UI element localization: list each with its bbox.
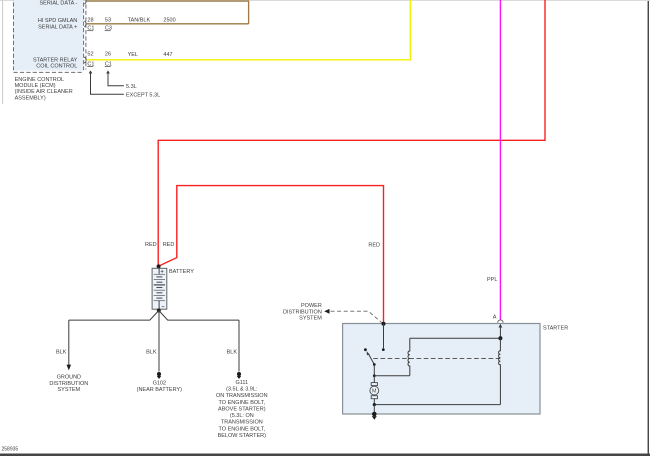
svg-text:SYSTEM: SYSTEM [57, 387, 80, 393]
svg-text:SYSTEM: SYSTEM [299, 316, 322, 322]
svg-text:TO ENGINE BOLT,: TO ENGINE BOLT, [219, 426, 266, 432]
svg-text:2500: 2500 [163, 17, 175, 23]
svg-text:A: A [493, 315, 497, 321]
svg-text:TRANSMISSION: TRANSMISSION [221, 420, 263, 426]
svg-text:BLK: BLK [56, 349, 67, 355]
svg-text:COIL CONTROL: COIL CONTROL [36, 64, 77, 70]
ECM connector face dashed line [85, 0, 87, 70]
page top faint edge [0, 0, 650, 1]
ground bus wire [69, 311, 239, 321]
wire PPL [499, 0, 501, 320]
node motor return [373, 403, 376, 406]
svg-text:RED: RED [145, 242, 157, 248]
solenoid linkage (dashed) [373, 358, 500, 360]
svg-text:MODULE (ECM): MODULE (ECM) [15, 83, 56, 89]
motor M [370, 376, 379, 405]
solenoid switch [364, 348, 376, 366]
connector C1 (row1) [87, 26, 94, 32]
wire coil top bus [410, 337, 501, 339]
svg-text:26: 26 [105, 51, 111, 57]
svg-text:M: M [372, 389, 377, 395]
connector C3 [105, 26, 112, 32]
starter case ground [372, 412, 377, 420]
svg-text:TO ENGINE BOLT,: TO ENGINE BOLT, [219, 400, 266, 406]
svg-text:(3.5L & 3.9L:: (3.5L & 3.9L: [226, 387, 258, 393]
frame bottom border [0, 454, 650, 456]
svg-text:BATTERY: BATTERY [169, 269, 194, 275]
svg-text:53: 53 [105, 17, 111, 23]
svg-text:DISTRIBUTION: DISTRIBUTION [49, 381, 88, 387]
svg-text:BELOW STARTER): BELOW STARTER) [218, 433, 267, 439]
battery negative junction [157, 309, 161, 313]
svg-text:(INSIDE AIR CLEANER: (INSIDE AIR CLEANER [15, 89, 73, 95]
G111 caption [216, 380, 268, 439]
svg-text:GROUND: GROUND [57, 375, 81, 381]
pull-in coil [408, 338, 410, 376]
svg-text:ON TRANSMISSION: ON TRANSMISSION [216, 393, 268, 399]
wire TAN/BLK 2500 [84, 21, 248, 27]
svg-text:G111: G111 [235, 380, 248, 386]
ground G111 [237, 372, 241, 379]
variant arrow EXCEPT 5.3L [89, 70, 160, 98]
wire BLK to G102 [158, 311, 160, 372]
svg-text:(NEAR BATTERY): (NEAR BATTERY) [137, 387, 182, 393]
svg-text:BLK: BLK [227, 349, 238, 355]
svg-text:ENGINE CONTROL: ENGINE CONTROL [15, 77, 65, 83]
svg-text:STARTER RELAY: STARTER RELAY [33, 57, 78, 63]
svg-text:TAN/BLK: TAN/BLK [128, 17, 151, 23]
svg-text:28: 28 [87, 17, 93, 23]
svg-text:(5.3L: ON: (5.3L: ON [230, 413, 254, 419]
ground distribution caption [49, 375, 88, 394]
page left faint edge [2, 0, 4, 104]
ECM module box (dashed, light blue) [14, 0, 84, 72]
svg-text:YEL: YEL [128, 52, 138, 58]
svg-text:PPL: PPL [487, 277, 497, 283]
wire switch to motor node [373, 365, 376, 378]
svg-text:5.3L: 5.3L [126, 84, 137, 90]
wire SERIAL DATA - (tan, top) [84, 0, 248, 24]
variant arrow 5.3L [106, 70, 137, 90]
svg-text:258935: 258935 [2, 447, 19, 453]
battery B+ [152, 268, 167, 309]
svg-text:SERIAL DATA +: SERIAL DATA + [38, 24, 77, 30]
connector C1 (row2 right) [105, 61, 112, 67]
svg-text:DISTRIBUTION: DISTRIBUTION [283, 309, 322, 315]
svg-text:STARTER: STARTER [543, 325, 568, 331]
node: red feed entering starter [382, 322, 386, 326]
svg-text:POWER: POWER [301, 303, 322, 309]
hold-in coil [499, 338, 501, 404]
svg-text:ABOVE STARTER): ABOVE STARTER) [218, 406, 266, 412]
starter box [343, 324, 540, 415]
svg-text:52: 52 [87, 51, 93, 57]
wire to case ground [373, 405, 375, 414]
frame right border [648, 1, 649, 456]
svg-text:BLK: BLK [146, 349, 157, 355]
svg-text:ASSEMBLY): ASSEMBLY) [15, 95, 46, 101]
svg-text:RED: RED [163, 242, 175, 248]
wire RED (battery feed 2) [159, 186, 384, 323]
svg-text:SERIAL DATA -: SERIAL DATA - [40, 0, 78, 6]
connector C1 (row2 left) [87, 61, 94, 67]
ECM caption text [15, 77, 73, 102]
G102 caption [137, 381, 182, 394]
wire node to pull-in coil [374, 375, 410, 377]
node A junction [498, 336, 502, 340]
svg-text:G102: G102 [153, 381, 166, 387]
wire to solenoid contact [382, 324, 385, 351]
svg-text:447: 447 [163, 52, 172, 58]
svg-text:EXCEPT 5.3L: EXCEPT 5.3L [126, 93, 160, 99]
wire BLK to G111 [238, 320, 240, 371]
power distribution reference [283, 303, 382, 323]
svg-text:HI SPD GMLAN: HI SPD GMLAN [38, 18, 77, 24]
ground G102 [157, 372, 161, 379]
terminal A connector [498, 320, 503, 338]
battery positive junction [157, 264, 161, 268]
wire YEL 447 [84, 0, 410, 63]
wire BLK to ground distribution [67, 320, 72, 370]
svg-text:RED: RED [368, 243, 380, 249]
wire RED (battery feed 1) [158, 0, 545, 265]
wire hold-in coil return [374, 404, 500, 406]
